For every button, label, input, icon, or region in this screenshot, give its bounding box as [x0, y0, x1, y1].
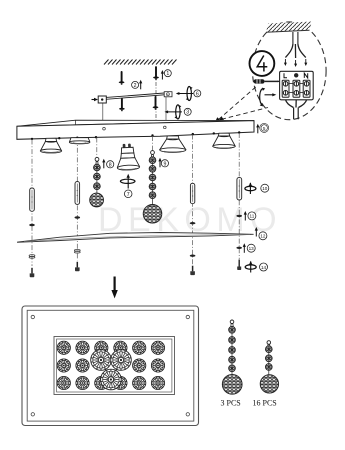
svg-text:14: 14: [261, 265, 267, 270]
svg-text:7: 7: [127, 192, 130, 198]
svg-text:16 PCS: 16 PCS: [253, 399, 277, 408]
svg-text:10: 10: [262, 186, 268, 191]
svg-text:5: 5: [263, 126, 266, 131]
svg-text:8: 8: [109, 162, 112, 168]
svg-text:6: 6: [196, 91, 199, 97]
svg-text:11: 11: [250, 214, 255, 219]
svg-text:2: 2: [134, 83, 137, 89]
svg-text:13: 13: [249, 246, 255, 251]
svg-text:12: 12: [260, 234, 266, 239]
svg-text:9: 9: [163, 161, 166, 167]
svg-text:3: 3: [186, 110, 189, 116]
svg-text:1: 1: [166, 71, 169, 77]
svg-text:3 PCS: 3 PCS: [221, 399, 241, 408]
